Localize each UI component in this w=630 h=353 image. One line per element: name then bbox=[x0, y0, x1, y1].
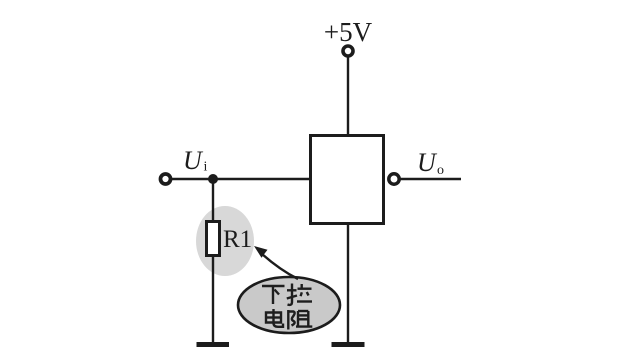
power terminal bbox=[343, 46, 353, 56]
ground left bbox=[197, 342, 230, 347]
svg-text:U: U bbox=[183, 146, 204, 175]
svg-text:U: U bbox=[417, 148, 438, 177]
output bubble bbox=[389, 174, 399, 184]
wire junction to R1 bbox=[212, 179, 214, 221]
text 下 (xia) bbox=[262, 286, 285, 304]
text 拉 (la) bbox=[287, 284, 312, 305]
IC gate U1 bbox=[311, 136, 384, 224]
svg-text:+5V: +5V bbox=[324, 17, 373, 47]
text 电 (dian) bbox=[266, 309, 283, 327]
wire input to IC left bbox=[171, 178, 310, 180]
highlight blob behind R1 bbox=[196, 206, 254, 276]
svg-text:i: i bbox=[204, 160, 208, 175]
input terminal bbox=[161, 174, 171, 184]
text 阻 (zu) bbox=[288, 310, 312, 330]
svg-text:R1: R1 bbox=[223, 226, 252, 253]
svg-text:o: o bbox=[437, 163, 444, 178]
wire power to IC top bbox=[347, 57, 349, 135]
label Ui bbox=[183, 146, 208, 175]
resistor R1 bbox=[207, 222, 220, 256]
wire IC bottom to ground bbox=[347, 224, 349, 343]
wire R1 to ground bbox=[212, 256, 214, 343]
callout ellipse pull-down resistor bbox=[238, 277, 340, 333]
label Uo bbox=[417, 148, 444, 178]
ground right bbox=[332, 342, 365, 347]
callout arrow to R1 bbox=[254, 246, 298, 279]
node junction at Ui bbox=[208, 174, 218, 184]
wire output to Uo bbox=[400, 178, 461, 180]
